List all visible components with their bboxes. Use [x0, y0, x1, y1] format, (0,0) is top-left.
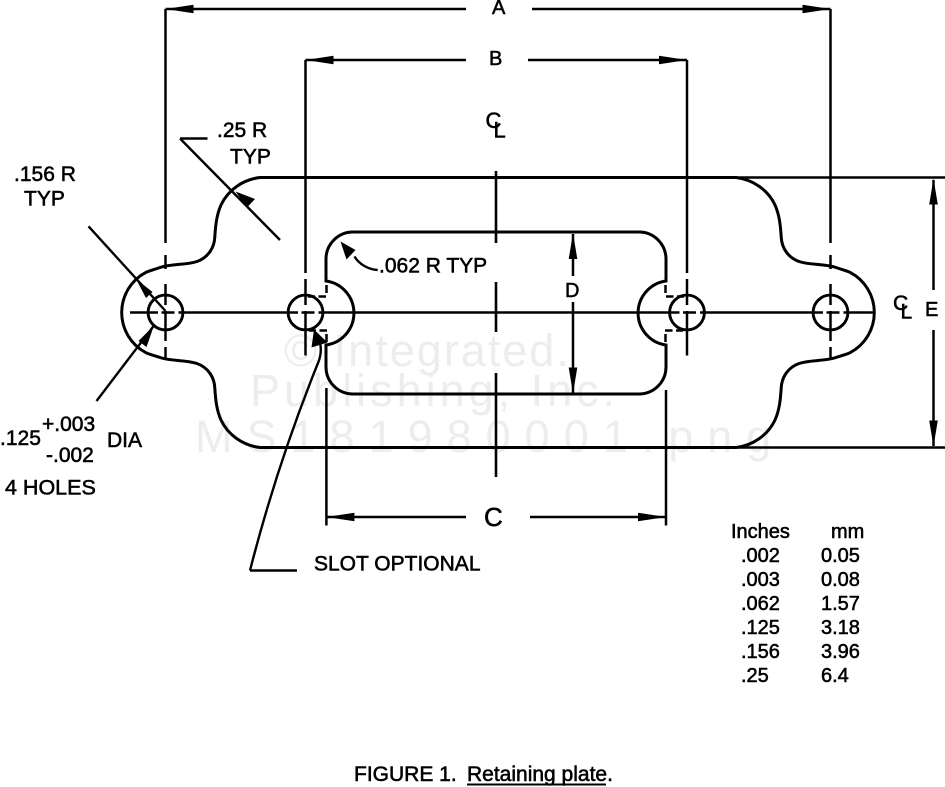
- dimension B line: [306, 59, 688, 62]
- svg-text:A: A: [492, 0, 506, 19]
- leader .062 R arrow: [341, 242, 356, 260]
- dimension D bottom arrow: [569, 368, 578, 394]
- svg-text:0.05: 0.05: [821, 545, 860, 567]
- hole 4 vertical extension line: [829, 9, 832, 358]
- leader slot optional arrow: [312, 330, 328, 348]
- svg-text:B: B: [489, 48, 502, 70]
- svg-text:TYP: TYP: [24, 188, 65, 211]
- svg-text:.003: .003: [741, 569, 780, 591]
- dimension B right arrow: [659, 56, 687, 65]
- svg-text:mm: mm: [831, 521, 864, 543]
- hole 1: [148, 295, 183, 330]
- svg-text:1.57: 1.57: [821, 593, 860, 615]
- dimension A left arrow: [166, 5, 194, 14]
- slot dashes hole 2: [308, 285, 327, 342]
- dimension B left arrow: [306, 56, 334, 65]
- hole 1 vertical extension line: [164, 9, 167, 358]
- plate outline: [122, 178, 875, 448]
- svg-text:Retaining plate.: Retaining plate.: [467, 763, 613, 786]
- svg-text:4 HOLES: 4 HOLES: [5, 476, 96, 500]
- horizontal centerline: [130, 311, 875, 314]
- dimension C extension line right: [665, 390, 668, 526]
- leader .156 R arrow: [136, 279, 153, 298]
- svg-text:.125: .125: [0, 427, 41, 450]
- leader .25 R arrow: [236, 192, 256, 208]
- dimension D line: [572, 234, 575, 393]
- svg-text:3.96: 3.96: [821, 641, 860, 663]
- svg-text:L: L: [494, 118, 506, 143]
- dimension D top arrow: [569, 233, 578, 259]
- svg-text:.25: .25: [741, 665, 769, 687]
- svg-text:3.18: 3.18: [821, 617, 860, 639]
- svg-text:.125: .125: [741, 617, 780, 639]
- hole 2: [288, 295, 323, 330]
- svg-text:.25 R: .25 R: [217, 119, 267, 142]
- svg-text:.002: .002: [741, 545, 780, 567]
- leader .156 R: [89, 226, 166, 311]
- vertical centerline of part: [495, 171, 498, 477]
- top edge extension line for E: [736, 176, 945, 178]
- leader .125 DIA arrow: [139, 326, 155, 348]
- svg-text:FIGURE 1.: FIGURE 1.: [354, 763, 457, 786]
- svg-text:SLOT OPTIONAL: SLOT OPTIONAL: [314, 553, 481, 576]
- svg-text:.062: .062: [741, 593, 780, 615]
- bottom edge extension line for E: [736, 446, 945, 448]
- dimension C line: [326, 516, 666, 519]
- dimension E top arrow: [929, 179, 938, 205]
- svg-text:D: D: [565, 280, 579, 302]
- hole 4: [813, 295, 848, 330]
- hole 3 vertical extension line: [686, 60, 689, 356]
- center cutout: [326, 232, 666, 394]
- dimension C extension line left: [325, 388, 328, 526]
- svg-text:.156: .156: [741, 641, 780, 663]
- slot dashes hole 3: [665, 285, 684, 342]
- svg-text:6.4: 6.4: [821, 665, 849, 687]
- leader slot optional: [250, 338, 321, 571]
- svg-text:+.003: +.003: [42, 413, 95, 436]
- dimension E line: [932, 180, 935, 446]
- leader .062 R: [355, 257, 378, 271]
- svg-text:TYP: TYP: [230, 146, 271, 169]
- svg-text:0.08: 0.08: [821, 569, 860, 591]
- svg-text:E: E: [925, 299, 938, 321]
- leader .25 R: [180, 139, 280, 241]
- dimension A line: [166, 8, 831, 11]
- svg-text:.062 R TYP: .062 R TYP: [379, 255, 487, 278]
- hole 3: [670, 295, 705, 330]
- svg-text:Publishing, Inc.: Publishing, Inc.: [250, 365, 619, 416]
- svg-text:DIA: DIA: [107, 429, 142, 452]
- dimension E bottom arrow: [929, 421, 938, 447]
- svg-text:Inches: Inches: [731, 521, 790, 543]
- svg-text:-.002: -.002: [46, 444, 94, 467]
- leader .125 DIA: [97, 326, 155, 402]
- dimension C left arrow: [326, 513, 354, 522]
- svg-text:L: L: [901, 301, 913, 324]
- dimension A right arrow: [803, 5, 831, 14]
- dimension C right arrow: [638, 513, 666, 522]
- svg-text:C: C: [484, 502, 503, 532]
- hole 2 vertical extension line: [304, 60, 307, 356]
- svg-text:.156 R: .156 R: [14, 163, 76, 186]
